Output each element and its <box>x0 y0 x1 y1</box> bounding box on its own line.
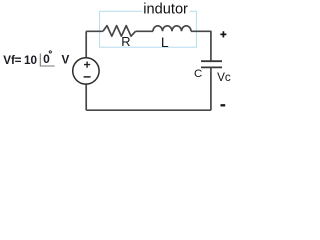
degree mark <box>49 51 51 53</box>
svg-text:0: 0 <box>43 52 50 66</box>
resistor R1 zigzag <box>103 26 136 37</box>
svg-text:C: C <box>194 68 202 80</box>
wire: between resistor and inductor <box>136 30 154 32</box>
wire: top rail right segment and right vertical down to capacitor <box>191 31 211 61</box>
minus sign inside source <box>84 76 91 78</box>
plus polarity mark top right <box>220 31 226 37</box>
wire: left vertical from source top to top rail <box>85 31 87 57</box>
wire: right vertical below capacitor to bottom rail <box>210 68 212 110</box>
wire: bottom rail <box>86 109 211 111</box>
wire: left vertical from bottom rail up to source bottom <box>85 85 87 111</box>
plus sign inside source <box>84 62 90 68</box>
highlight box around R and L (selection rectangle) <box>100 11 197 47</box>
svg-text:=: = <box>15 54 22 67</box>
inductor L1 coil (4 humps) <box>153 26 191 32</box>
minus polarity mark bottom right <box>221 104 226 106</box>
svg-text:Vf: Vf <box>3 54 15 67</box>
svg-text:R: R <box>121 34 130 49</box>
svg-text:indutor: indutor <box>143 2 188 18</box>
voltage source circle <box>73 58 99 84</box>
white backing for indutor label <box>143 3 190 15</box>
wire: top rail left segment <box>86 30 103 32</box>
svg-text:L: L <box>161 34 169 50</box>
svg-text:10: 10 <box>24 54 38 67</box>
capacitor C bottom plate <box>201 66 222 68</box>
angle bracket symbol <box>40 54 54 67</box>
svg-text:Vc: Vc <box>217 71 231 84</box>
svg-text:V: V <box>62 53 70 66</box>
capacitor C top plate <box>201 60 222 62</box>
